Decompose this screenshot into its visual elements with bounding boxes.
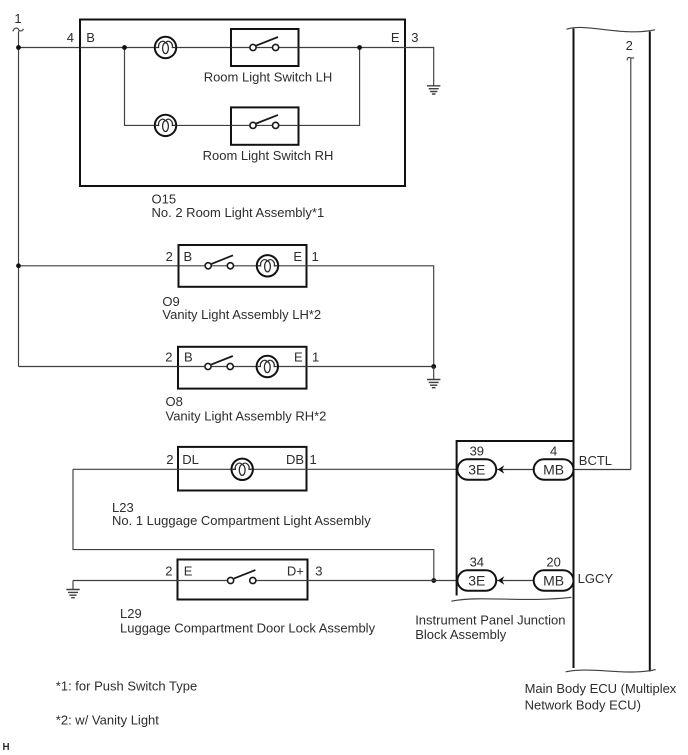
svg-text:2: 2 (166, 452, 173, 467)
svg-text:B: B (184, 249, 193, 264)
svg-text:L29: L29 (120, 606, 142, 621)
svg-text:E: E (293, 249, 302, 264)
svg-text:2: 2 (166, 249, 173, 264)
svg-text:Block Assembly: Block Assembly (415, 627, 507, 642)
svg-text:1: 1 (312, 249, 319, 264)
svg-text:*1: for Push Switch Type: *1: for Push Switch Type (56, 678, 197, 693)
svg-text:1: 1 (14, 11, 21, 26)
svg-text:E: E (184, 564, 193, 579)
svg-text:4: 4 (550, 443, 557, 458)
svg-text:E: E (391, 30, 400, 45)
svg-text:20: 20 (546, 554, 560, 569)
svg-text:B: B (184, 350, 193, 365)
svg-text:Instrument Panel Junction: Instrument Panel Junction (415, 613, 565, 628)
svg-text:B: B (86, 30, 95, 45)
svg-text:3: 3 (315, 564, 322, 579)
svg-text:H: H (3, 742, 10, 753)
svg-text:Network Body ECU): Network Body ECU) (525, 697, 641, 712)
svg-text:E: E (294, 350, 303, 365)
svg-text:4: 4 (67, 30, 74, 45)
svg-text:Luggage Compartment Door Lock: Luggage Compartment Door Lock Assembly (120, 621, 376, 636)
svg-text:Main Body ECU (Multiplex: Main Body ECU (Multiplex (525, 681, 677, 696)
svg-text:No. 1 Luggage Compartment Ligh: No. 1 Luggage Compartment Light Assembly (112, 513, 371, 528)
svg-text:2: 2 (165, 350, 172, 365)
svg-text:Vanity Light Assembly LH*2: Vanity Light Assembly LH*2 (162, 307, 321, 322)
svg-text:O8: O8 (166, 394, 183, 409)
svg-text:34: 34 (470, 554, 484, 569)
svg-text:Vanity Light Assembly RH*2: Vanity Light Assembly RH*2 (166, 409, 327, 424)
svg-text:2: 2 (165, 564, 172, 579)
svg-text:*2: w/ Vanity Light: *2: w/ Vanity Light (56, 713, 159, 728)
svg-text:DB: DB (286, 452, 304, 467)
svg-text:1: 1 (312, 350, 319, 365)
svg-text:D+: D+ (287, 564, 304, 579)
svg-text:LGCY: LGCY (578, 571, 614, 586)
svg-text:Room Light Switch LH: Room Light Switch LH (204, 70, 333, 85)
svg-text:DL: DL (182, 452, 199, 467)
svg-text:3: 3 (411, 30, 418, 45)
svg-text:Room Light Switch RH: Room Light Switch RH (203, 148, 334, 163)
svg-text:39: 39 (470, 443, 484, 458)
svg-text:1: 1 (310, 452, 317, 467)
svg-text:BCTL: BCTL (579, 453, 612, 468)
svg-text:2: 2 (626, 38, 633, 53)
svg-text:No. 2 Room Light Assembly*1: No. 2 Room Light Assembly*1 (152, 205, 325, 220)
